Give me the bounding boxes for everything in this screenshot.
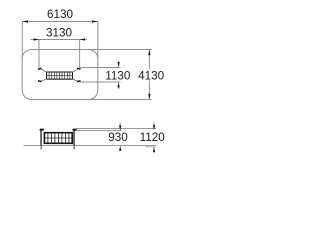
side view right post cap (72, 129, 76, 131)
dimension 1130 lower line segment (118, 86, 120, 89)
dimension 1130 lower arrow (pointing up) (118, 82, 120, 87)
dimension 4130 line lower part (148, 80, 150, 99)
net plan edge rope top-left (40, 68, 47, 72)
dimension 1120 lower arrow (pointing up) (153, 147, 155, 152)
dimension 1130 bottom extension line (80, 81, 121, 83)
svg-text:1120: 1120 (140, 131, 166, 144)
side view net panel border (44, 133, 72, 144)
dimension 930 lower arrow (pointing up) (119, 146, 121, 151)
dimension 3130 left extension line (38, 40, 40, 68)
side view net panel inner grid (44, 133, 72, 144)
dimension 3130 left arrow (outside, pointing right) (34, 38, 39, 40)
net bridge plan: grid panel (47, 72, 73, 79)
dimension 6130 right arrow (92, 20, 98, 22)
net plan edge rope bottom-left (40, 79, 47, 82)
dimension 4130 top arrow (pointing up) (148, 50, 150, 56)
side view right post (73, 131, 75, 146)
dimension 4130 bottom arrow (pointing down) (148, 94, 150, 100)
left post anchor bottom (plan) (38, 80, 42, 82)
net plan edge rope top-right (73, 68, 80, 72)
dimension 1120 bottom extension line (146, 146, 156, 148)
plan view safety zone rounded rectangle (22, 50, 98, 100)
dimension 1130 top extension line (80, 67, 121, 69)
dimension 930 top extension line (76, 130, 122, 132)
right post anchor top (plan) (77, 68, 81, 70)
dimension 930 upper line segment (119, 122, 121, 125)
net plan edge rope bottom-right (73, 79, 80, 82)
svg-text:1130: 1130 (105, 70, 131, 83)
dimension 3130 line (31, 39, 88, 41)
side view right foundation foot (74, 146, 75, 150)
dimension 6130 right extension line (97, 22, 99, 60)
dimension 6130 line (22, 21, 98, 23)
dimension 4130 bottom extension line (88, 99, 152, 101)
dimension 1120 upper arrow (pointing down) (153, 125, 155, 130)
net bridge plan: grid outer border (47, 72, 73, 79)
right post anchor bottom (plan) (77, 80, 81, 82)
side view left post cap (40, 129, 44, 131)
svg-text:6130: 6130 (47, 8, 74, 21)
dimension 1120 upper line segment (153, 122, 155, 125)
dimension 930 upper arrow (pointing down) (119, 125, 121, 130)
svg-text:3130: 3130 (46, 27, 73, 40)
dimension 1130 upper arrow (pointing down) (118, 62, 120, 67)
svg-text:930: 930 (108, 131, 128, 144)
dimension 3130 right extension line (79, 40, 81, 68)
dimension 4130 top extension line (88, 49, 152, 51)
dimension 6130 left arrow (22, 20, 28, 22)
dimension 3130 right arrow (outside, pointing left) (80, 38, 85, 40)
side view ground line (24, 145, 157, 147)
svg-text:4130: 4130 (138, 70, 165, 83)
dimension 6130 left extension line (21, 22, 23, 60)
side view left post (40, 131, 42, 146)
dimension 1130 upper line segment (118, 60, 120, 63)
side view left foundation foot (41, 146, 42, 150)
dimension 4130 line upper part (148, 50, 150, 69)
left post anchor top (plan) (38, 68, 42, 70)
dimension 1120 top extension line (75, 128, 156, 130)
